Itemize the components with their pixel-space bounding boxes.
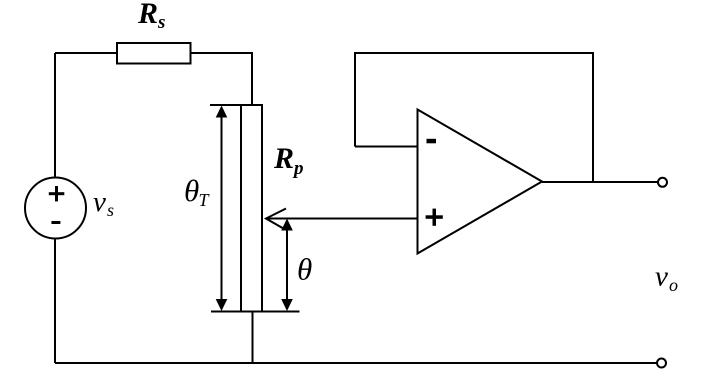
plus sign of source	[49, 192, 65, 195]
theta arrowhead down	[281, 299, 293, 311]
svg-text:s: s	[107, 200, 114, 220]
theta_T arrowhead up	[216, 106, 228, 118]
wire left vertical source bottom	[54, 239, 56, 364]
wire resistor to pot top corner	[191, 53, 253, 105]
wire bottom rail	[55, 362, 657, 364]
svg-text:v: v	[655, 261, 668, 293]
resistor R_s	[117, 43, 191, 64]
theta_T arrowhead down	[216, 299, 228, 311]
wire top-left from source to resistor	[55, 52, 117, 54]
svg-text:θ: θ	[297, 252, 312, 287]
svg-text:s: s	[157, 12, 165, 33]
feedback wire loop	[355, 53, 593, 182]
wiper arrow line to op-amp + input	[266, 218, 418, 220]
voltage source vs	[25, 178, 86, 239]
wiper open arrowhead	[266, 209, 286, 229]
op-amp minus label	[427, 139, 437, 144]
wire inverting input	[355, 146, 418, 148]
wire op-amp output	[542, 181, 658, 183]
theta dimension line	[286, 228, 288, 300]
svg-text:θ: θ	[184, 173, 199, 208]
theta arrowhead up	[281, 219, 293, 231]
svg-text:R: R	[137, 0, 158, 30]
pot top tick line	[210, 104, 262, 106]
wire left vertical source top	[54, 53, 56, 178]
op-amp U1 triangle	[418, 110, 543, 254]
output terminal top	[658, 178, 667, 187]
svg-text:o: o	[669, 275, 678, 295]
theta_T dimension line	[221, 115, 223, 300]
op-amp plus label	[426, 215, 443, 219]
pot bottom tick line	[211, 311, 300, 313]
svg-text:p: p	[292, 158, 304, 179]
svg-text:R: R	[273, 142, 294, 175]
output terminal bottom	[657, 359, 666, 368]
potentiometer Rp body	[241, 105, 262, 312]
svg-text:v: v	[93, 186, 106, 218]
minus sign of source	[51, 221, 60, 224]
wire pot bottom to rail	[252, 312, 254, 364]
